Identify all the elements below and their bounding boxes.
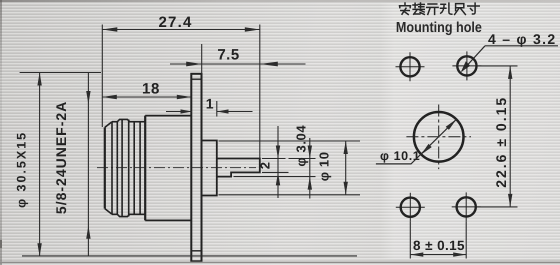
svg-text:5/8-24UNEF-2A: 5/8-24UNEF-2A — [53, 101, 69, 214]
svg-text:2: 2 — [257, 162, 272, 169]
dim dia 30.5X15 — [15, 73, 358, 257]
dim dia 3.04 — [234, 125, 316, 199]
solder pin contact — [217, 159, 260, 177]
dim dia 10.1 leader — [376, 119, 457, 164]
title Chinese 安装开孔尺寸 (drawn strokes) — [400, 3, 480, 15]
dim 8 +/- 0.15 — [410, 221, 466, 258]
dim 1 — [166, 96, 253, 117]
centerline — [97, 167, 256, 169]
dim 7.5 — [170, 44, 306, 74]
connector body — [145, 116, 191, 221]
svg-text:7.5: 7.5 — [217, 46, 239, 63]
svg-text:4 – φ 3.2: 4 – φ 3.2 — [488, 31, 556, 47]
svg-text:φ 10: φ 10 — [316, 151, 331, 181]
scan artifact bottom line — [0, 261, 560, 263]
dim 27.4 — [102, 14, 259, 158]
scan artifact left blob — [0, 240, 2, 248]
svg-text:27.4: 27.4 — [159, 14, 193, 31]
dim 2 — [257, 126, 288, 198]
dim 22.6 +/- 0.15 — [477, 66, 518, 207]
mounting hole top-left — [396, 52, 425, 81]
coupling nut — [105, 119, 145, 216]
svg-text:1: 1 — [206, 96, 214, 112]
svg-text:18: 18 — [142, 80, 160, 97]
mounting hole top-right — [452, 51, 481, 80]
dim dia 10 — [219, 141, 361, 195]
dim thread 5/8-24UNEF-2A — [53, 73, 91, 257]
svg-text:φ 3.04: φ 3.04 — [294, 125, 309, 167]
insulator bushing — [202, 141, 217, 196]
svg-text:Mounting hole: Mounting hole — [396, 20, 482, 36]
svg-text:φ 10.1: φ 10.1 — [380, 149, 420, 163]
svg-text:8 ± 0.15: 8 ± 0.15 — [413, 238, 465, 253]
mounting hole bottom-left — [396, 193, 425, 222]
flange — [191, 74, 201, 261]
svg-text:φ 30.5X15: φ 30.5X15 — [15, 131, 29, 208]
dim 18 — [102, 80, 191, 99]
label 4 - dia 3.2 — [461, 31, 558, 72]
center hole dia 10.1 — [406, 105, 471, 170]
svg-text:22.6 ± 0.15: 22.6 ± 0.15 — [493, 96, 509, 188]
mounting hole bottom-right — [452, 192, 481, 221]
